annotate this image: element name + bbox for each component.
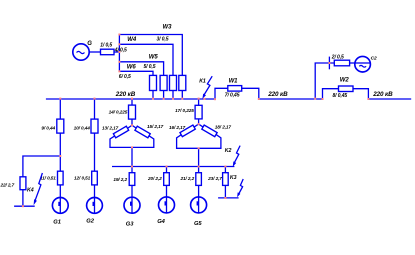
node trunk W5 bbox=[118, 61, 120, 63]
node genbus K3 bbox=[224, 166, 226, 168]
G2 inner bar bbox=[94, 198, 96, 214]
svg-text:17/ 0,225: 17/ 0,225 bbox=[175, 108, 194, 113]
wire W1 riser right bbox=[242, 88, 259, 99]
svg-text:19/ 2,2: 19/ 2,2 bbox=[113, 177, 127, 182]
resistor R8 (line W2) bbox=[339, 86, 354, 92]
wire line W4 bbox=[119, 44, 173, 75]
svg-text:7/ 0,45: 7/ 0,45 bbox=[225, 93, 240, 99]
G1 inner dash bbox=[58, 202, 60, 206]
svg-text:G2: G2 bbox=[86, 218, 94, 224]
node K3 stub bbox=[224, 197, 226, 199]
wire branch to K4 bbox=[23, 156, 60, 177]
wire trunk vertical bbox=[118, 35, 120, 72]
node trunk W4 bbox=[118, 43, 120, 45]
node T1 yoke bbox=[131, 146, 133, 148]
resistor R1 bbox=[101, 49, 115, 55]
K3 bolt arrow bbox=[237, 192, 240, 197]
short-circuit K3 bolt bbox=[239, 179, 243, 194]
wire G2 column middle bbox=[94, 133, 96, 171]
bus section 3 bbox=[368, 98, 411, 100]
node genbus G3 bbox=[131, 166, 133, 168]
resistor R22 bbox=[20, 177, 26, 190]
wire R3 to bus bbox=[181, 91, 183, 100]
wire G4 column bbox=[166, 167, 168, 173]
resistor R7 (line W1) bbox=[228, 86, 242, 92]
node bus end W1 bbox=[214, 98, 216, 100]
C2 tilde bbox=[359, 65, 366, 67]
source C2 bbox=[355, 56, 371, 72]
node trunk W3 bbox=[118, 34, 120, 36]
svg-text:220 кВ: 220 кВ bbox=[115, 91, 136, 98]
C2 chord bbox=[355, 62, 371, 64]
generator G4 bbox=[159, 197, 175, 213]
wire line W3 bbox=[119, 35, 182, 76]
svg-text:K2: K2 bbox=[225, 148, 232, 154]
resistor R12 bbox=[92, 171, 98, 185]
G5 inner dash bbox=[197, 201, 199, 205]
node T1 split bbox=[131, 124, 133, 126]
resistor R13 (T1 left winding) bbox=[113, 126, 128, 138]
svg-text:15/ 2,17: 15/ 2,17 bbox=[147, 124, 164, 129]
wire C2 branch vertical bbox=[315, 63, 334, 99]
node bus2 left bbox=[258, 98, 260, 100]
K1 bolt arrow bbox=[202, 94, 206, 99]
generator G2 bbox=[87, 198, 103, 214]
wire W2 riser right bbox=[353, 89, 368, 99]
svg-text:G5: G5 bbox=[194, 221, 202, 227]
svg-text:23/ 2,7: 23/ 2,7 bbox=[207, 176, 222, 181]
node bus T1 bbox=[131, 98, 133, 100]
node C2 tick bbox=[328, 62, 330, 64]
svg-text:W5: W5 bbox=[149, 55, 159, 61]
wire W1 riser left bbox=[215, 88, 228, 99]
wire G1 column middle bbox=[59, 133, 61, 171]
wire C1 to resistor 1 bbox=[89, 51, 100, 53]
source C1 bbox=[73, 44, 89, 60]
wire T2 yoke bbox=[177, 135, 221, 149]
resistor R14 (T1 HV) bbox=[129, 105, 136, 119]
resistor R4 (line W4) bbox=[170, 75, 177, 90]
wire K3 stub bbox=[218, 197, 239, 199]
resistor R19 bbox=[129, 173, 135, 186]
svg-text:220 кВ: 220 кВ bbox=[372, 91, 393, 98]
wire T2 top bbox=[198, 99, 200, 105]
short-circuit K4 bolt bbox=[35, 173, 42, 200]
resistor R6 (line W6) bbox=[150, 75, 157, 90]
svg-text:W4: W4 bbox=[127, 37, 137, 43]
node trunk gen bbox=[118, 51, 120, 53]
svg-text:C2: C2 bbox=[371, 56, 377, 62]
main bus 220 kV bbox=[46, 98, 215, 100]
wire W2 riser left bbox=[323, 89, 339, 99]
short-circuit K2 bolt bbox=[234, 146, 240, 163]
wire line W6 bbox=[119, 71, 153, 75]
node genbus G4 bbox=[166, 166, 168, 168]
resistor R16 (T2 left winding) bbox=[180, 125, 195, 137]
svg-text:2/ 0,5: 2/ 0,5 bbox=[331, 55, 344, 61]
wire K4 stub bbox=[14, 205, 35, 207]
svg-text:W3: W3 bbox=[163, 25, 173, 31]
wire T2 split bbox=[194, 119, 203, 127]
svg-text:G1: G1 bbox=[53, 220, 61, 226]
C2 terminal tick bbox=[328, 57, 330, 70]
resistor R21 bbox=[196, 173, 202, 186]
resistor R3 (line W3) bbox=[179, 75, 186, 90]
wire R2 to C2 bbox=[350, 62, 355, 64]
node K4 stub bbox=[22, 205, 24, 207]
svg-text:4/ 0,5: 4/ 0,5 bbox=[114, 48, 127, 54]
node bus G1 bbox=[59, 98, 61, 100]
node T2 split bbox=[198, 123, 200, 125]
svg-text:G: G bbox=[87, 41, 92, 47]
svg-text:12/ 0,51: 12/ 0,51 bbox=[74, 176, 91, 181]
node bus K1 bbox=[203, 98, 205, 100]
wire R21 to G5 bbox=[198, 185, 200, 197]
svg-text:G4: G4 bbox=[157, 219, 165, 225]
wire R20 to G4 bbox=[166, 185, 168, 197]
svg-text:9/ 0,44: 9/ 0,44 bbox=[41, 126, 55, 131]
resistor R15 (T1 right winding) bbox=[135, 126, 150, 138]
node bus R5 bbox=[163, 98, 165, 100]
node genbus G5 bbox=[198, 166, 200, 168]
svg-text:W6: W6 bbox=[127, 64, 137, 70]
svg-text:20/ 2,2: 20/ 2,2 bbox=[147, 176, 162, 181]
svg-text:18/ 2,17: 18/ 2,17 bbox=[215, 125, 232, 130]
wire R6 to bus bbox=[152, 91, 154, 100]
node bus2 C2 bbox=[314, 98, 316, 100]
wire T1 top bbox=[131, 99, 133, 105]
G4 inner bar bbox=[166, 197, 168, 213]
node bus3 left bbox=[367, 98, 369, 100]
wire R5 to bus bbox=[163, 91, 165, 100]
wire R12 to G2 bbox=[94, 185, 96, 198]
K2 bolt arrow bbox=[233, 161, 237, 167]
wire T1 yoke bbox=[110, 136, 154, 148]
node G1 tee bbox=[59, 155, 61, 157]
K4 bolt arrow bbox=[34, 199, 37, 205]
wire G3 column bbox=[131, 167, 133, 173]
svg-text:16/ 2,17: 16/ 2,17 bbox=[169, 125, 186, 130]
wire R23 to stub bbox=[224, 185, 226, 198]
wire G2 column upper bbox=[94, 99, 96, 119]
svg-text:3/ 0,5: 3/ 0,5 bbox=[157, 36, 169, 42]
resistor R10 bbox=[91, 119, 98, 133]
node trunk W6 bbox=[118, 70, 120, 72]
G3 inner dash bbox=[130, 202, 132, 206]
generator bus bbox=[112, 166, 234, 168]
resistor R2 bbox=[334, 60, 349, 66]
node bus R3 bbox=[181, 98, 183, 100]
node dots bbox=[22, 34, 370, 208]
bus section 2 bbox=[259, 98, 323, 100]
resistor R17 (T2 HV) bbox=[195, 105, 202, 119]
wire T1 split bbox=[127, 119, 136, 128]
wire T1 to gen bus bbox=[131, 147, 133, 166]
svg-text:8/ 0,45: 8/ 0,45 bbox=[333, 93, 348, 99]
svg-text:11/ 0,51: 11/ 0,51 bbox=[40, 176, 56, 181]
wire R11 to G1 bbox=[59, 185, 61, 198]
wire T2 to gen bus bbox=[198, 148, 200, 166]
svg-text:13/ 2,17: 13/ 2,17 bbox=[102, 125, 119, 130]
node bus R6 bbox=[152, 98, 154, 100]
svg-text:22/ 2,7: 22/ 2,7 bbox=[0, 182, 15, 187]
svg-text:K4: K4 bbox=[27, 188, 34, 194]
svg-text:K1: K1 bbox=[199, 79, 206, 85]
resistor R23 bbox=[223, 173, 229, 186]
node bus G2 bbox=[94, 98, 96, 100]
wire R4 to bus bbox=[172, 91, 174, 100]
wire line W5 bbox=[119, 62, 163, 76]
generator G1 bbox=[52, 198, 68, 214]
generator G5 bbox=[191, 197, 207, 213]
resistor R11 bbox=[58, 171, 64, 185]
svg-text:14/ 0,225: 14/ 0,225 bbox=[109, 110, 128, 115]
wire resistor 1 to trunk bbox=[114, 51, 119, 53]
svg-text:220 кВ: 220 кВ bbox=[267, 91, 288, 98]
svg-text:W1: W1 bbox=[229, 79, 239, 85]
svg-text:G3: G3 bbox=[126, 222, 134, 228]
C1 tilde bbox=[77, 51, 85, 53]
node bus T2 bbox=[198, 98, 200, 100]
resistor R20 bbox=[164, 173, 170, 186]
svg-text:6/ 0,5: 6/ 0,5 bbox=[119, 74, 131, 80]
svg-text:21/ 2,2: 21/ 2,2 bbox=[179, 176, 194, 181]
svg-text:10/ 0,44: 10/ 0,44 bbox=[74, 126, 91, 131]
G4 inner dash bbox=[165, 201, 167, 205]
resistor R5 (line W5) bbox=[160, 75, 167, 90]
svg-text:W2: W2 bbox=[340, 78, 350, 84]
G5 inner bar bbox=[198, 197, 200, 213]
node bus2 right bbox=[322, 98, 324, 100]
wire G5 column bbox=[198, 167, 200, 173]
svg-text:5/ 0,5: 5/ 0,5 bbox=[144, 64, 156, 70]
node T2 yoke bbox=[198, 147, 200, 149]
G3 inner bar bbox=[131, 197, 133, 213]
G1 inner bar bbox=[59, 198, 61, 214]
wire R19 to G3 bbox=[131, 185, 133, 197]
resistor R18 (T2 right winding) bbox=[202, 125, 217, 137]
short-circuit K1 bolt bbox=[204, 76, 212, 94]
wire R22 to stub bbox=[22, 190, 24, 207]
wire G1 column upper bbox=[59, 99, 61, 119]
resistor R9 bbox=[57, 119, 64, 133]
G2 inner dash bbox=[93, 202, 95, 206]
generator G3 bbox=[124, 197, 140, 213]
node bus R4 bbox=[172, 98, 174, 100]
svg-text:1/ 0,5: 1/ 0,5 bbox=[100, 43, 112, 49]
svg-text:K3: K3 bbox=[230, 175, 237, 181]
wire K3 column bbox=[224, 167, 226, 173]
